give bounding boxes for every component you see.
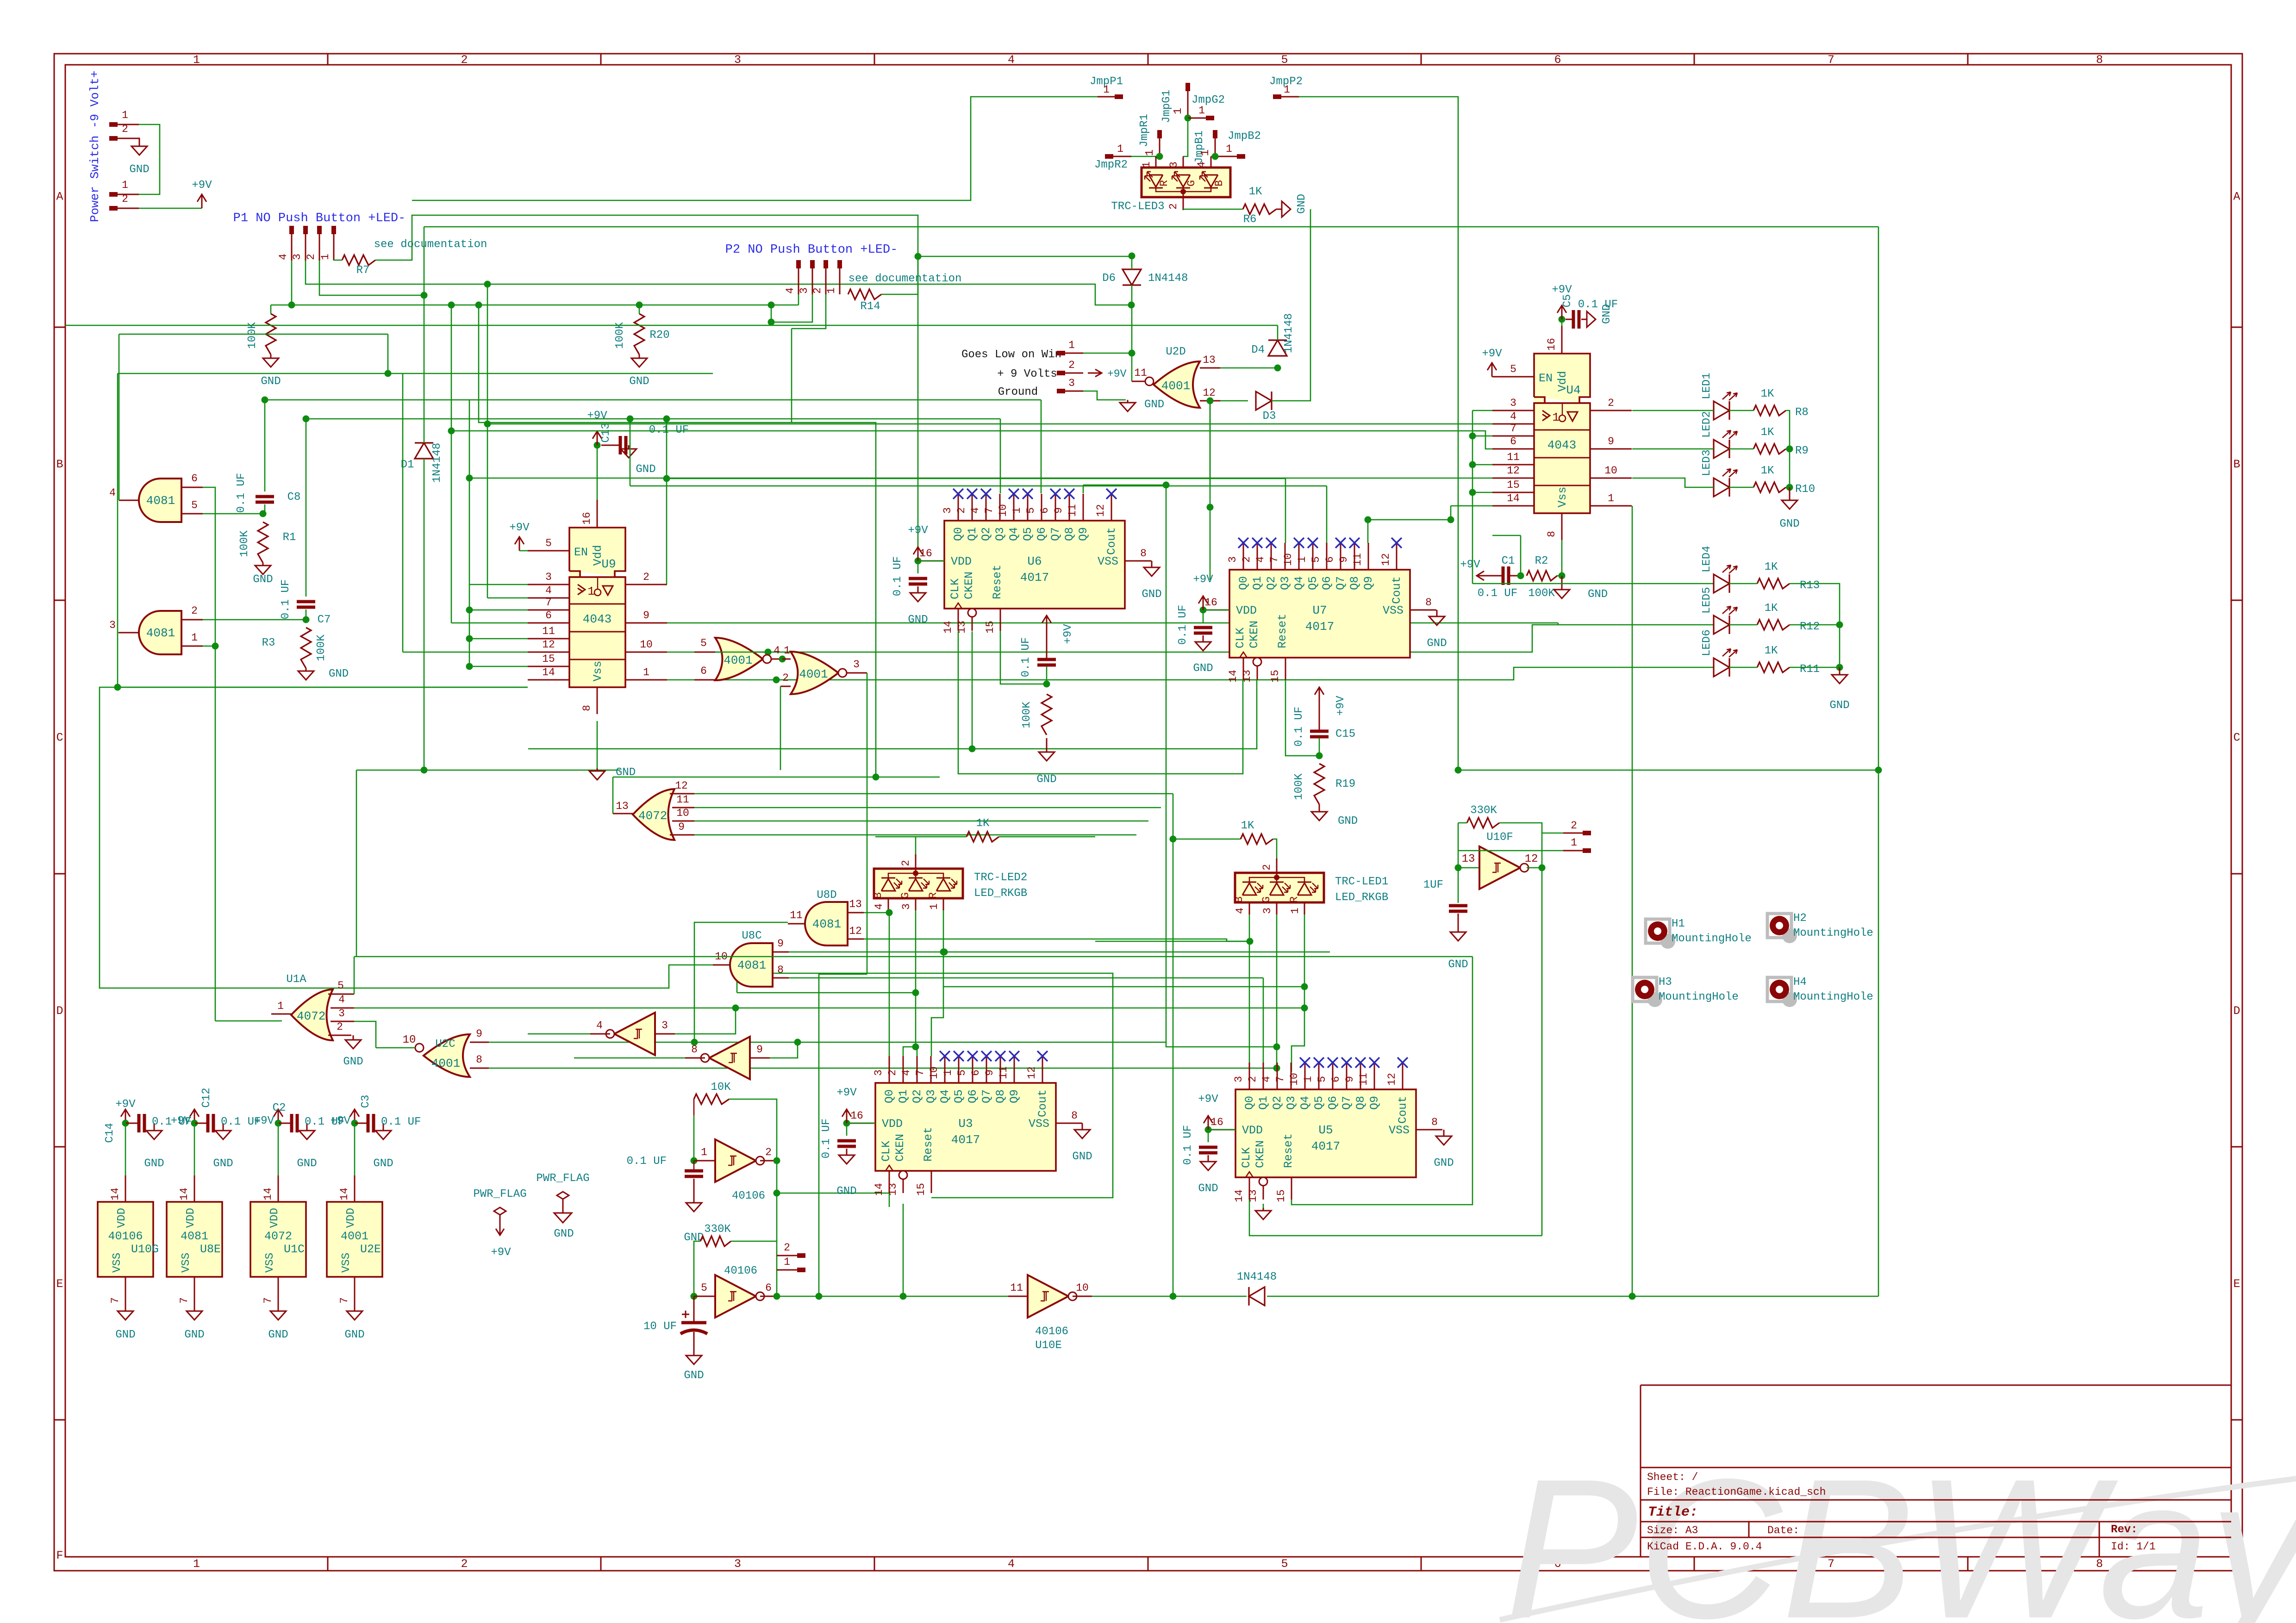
wire U3 Q2 up: [917, 1050, 918, 1056]
svg-text:GND: GND: [554, 1228, 574, 1240]
junction C3: [351, 1120, 358, 1127]
GND label (pwr flag): [554, 1228, 574, 1240]
R10 refdes: [1795, 483, 1815, 496]
svg-text:3: 3: [109, 619, 116, 631]
junction R9 out: [1786, 446, 1793, 453]
GND label (U6 cap): [908, 614, 928, 626]
svg-text:VDD: VDD: [185, 1208, 197, 1228]
ground symbol (R6): [1276, 194, 1308, 217]
U6 no-connect Q7: [1050, 489, 1061, 499]
U7 pin 13 (CKEN) bubble: [1253, 658, 1261, 666]
svg-text:1: 1: [1068, 339, 1075, 351]
power +9V symbol (C1): [1460, 559, 1491, 580]
C1 refdes: [1502, 555, 1515, 567]
svg-text:11: 11: [790, 909, 803, 921]
svg-text:3: 3: [900, 903, 912, 910]
graphic text Goes Low on Win: [961, 348, 1061, 361]
svg-text:Q0: Q0: [1237, 576, 1250, 590]
wire U3 cap: [846, 1123, 848, 1136]
svg-text:+9V: +9V: [171, 1115, 191, 1127]
svg-text:C13: C13: [600, 423, 612, 442]
IC U1C 4072 body: [250, 1202, 306, 1277]
inv-a bubble note: [0, 0, 0, 0]
svg-text:C1: C1: [1502, 555, 1515, 567]
junction JmpG1/G2: [1185, 115, 1192, 122]
U4 EN label: [1539, 372, 1553, 385]
svg-text:Q1: Q1: [897, 1089, 910, 1103]
svg-text:2: 2: [191, 605, 198, 617]
svg-text:11: 11: [1352, 553, 1364, 566]
wire U8A pin6 net: [203, 487, 215, 646]
wire U6 Q6 up: [1041, 400, 1042, 493]
LED LED2: [1714, 430, 1737, 458]
U5 no-connect Cout: [1398, 1057, 1408, 1068]
U7 CLK wedge: [1240, 652, 1247, 658]
U6 Reset label: [991, 565, 1004, 599]
junction U4 pin14 chain: [1447, 516, 1454, 523]
U5 pin 7 (Q3): [1274, 1063, 1291, 1089]
ground symbol (U6 cap): [910, 586, 926, 602]
U8E pin 7 (VSS): [178, 1277, 194, 1310]
svg-text:8: 8: [1431, 1116, 1438, 1128]
wire U1B in11: [694, 807, 1161, 808]
U7 cap value 0.1 UF: [1177, 605, 1189, 645]
svg-text:VSS: VSS: [340, 1253, 353, 1273]
svg-text:4: 4: [1254, 556, 1267, 563]
junction x254 y1485: [114, 684, 121, 691]
U7 pin 15 (Reset): [1269, 658, 1285, 683]
junction net A x1666: [768, 302, 775, 309]
svg-text:Q2: Q2: [1265, 576, 1278, 590]
wire U4 pin3 in: [1472, 410, 1492, 411]
capacitor 0.1UF (osc1): [685, 1171, 703, 1176]
C14 refdes: [104, 1123, 116, 1143]
hierarchical label JmpR1: [1138, 114, 1151, 147]
junction U4 pin12 braid: [466, 475, 473, 482]
junction U9 pin15: [466, 663, 473, 670]
win connector pin 1: [1057, 339, 1083, 355]
svg-text:14: 14: [1233, 1189, 1245, 1202]
svg-text:40106: 40106: [732, 1190, 765, 1202]
svg-text:D3: D3: [1263, 410, 1276, 423]
svg-text:1: 1: [928, 903, 940, 910]
wire D1 upper lead: [424, 227, 425, 443]
wire U9 pin1 bus: [667, 679, 776, 681]
wire y703 trunk: [65, 325, 1278, 326]
svg-text:40106: 40106: [108, 1230, 143, 1243]
svg-text:12: 12: [675, 780, 688, 792]
junction U8D-out x1500: [691, 1039, 698, 1046]
U2D pin 12: [1200, 387, 1220, 401]
U8C pin 10 (output): [713, 951, 731, 965]
svg-text:15: 15: [1269, 670, 1281, 683]
svg-text:1K: 1K: [976, 817, 990, 830]
svg-text:Q4: Q4: [1298, 1096, 1312, 1110]
svg-text:14: 14: [1507, 492, 1520, 504]
ground symbol (U2E): [347, 1310, 362, 1320]
svg-text:LED2: LED2: [1701, 411, 1713, 438]
resistor R3: [301, 628, 311, 668]
svg-text:2: 2: [900, 860, 912, 866]
svg-text:15: 15: [984, 621, 996, 634]
U5 CLK label: [1240, 1147, 1253, 1168]
GND label (U1C): [268, 1329, 288, 1341]
wire U8B pin2 to C7: [203, 619, 306, 621]
power +9V symbol (U4 EN): [1482, 348, 1502, 377]
svg-text:1UF: 1UF: [1423, 879, 1443, 891]
wire U5 cap: [1208, 1130, 1209, 1142]
svg-text:1: 1: [1103, 84, 1110, 96]
svg-text:1: 1: [1552, 410, 1560, 424]
junction TRC1 p4: [1247, 938, 1254, 945]
svg-text:R7: R7: [356, 264, 370, 277]
10K value: [711, 1081, 731, 1094]
svg-text:0.1 UF: 0.1 UF: [820, 1119, 833, 1158]
junction R12 out: [1836, 622, 1843, 628]
svg-text:Q6: Q6: [1326, 1096, 1340, 1110]
junction U5 VDD: [1205, 1126, 1212, 1133]
svg-text:10 UF: 10 UF: [643, 1320, 677, 1333]
wire osc select vertical: [776, 1193, 778, 1296]
GND label (U5 cap): [1198, 1182, 1218, 1195]
U6 no-connect Q4: [1009, 489, 1019, 499]
GND label (U6 VSS): [1142, 588, 1161, 601]
gate U1B 4072: [633, 789, 674, 840]
wire U4 pin14 chain: [1368, 506, 1451, 520]
U5 pin 16 (VDD): [1209, 1116, 1235, 1130]
U5 pin 5 (Q6): [1316, 1063, 1333, 1089]
svg-text:5: 5: [1281, 53, 1288, 67]
wire P2 pin4: [798, 294, 799, 305]
junction inv-a in / U1A in4: [732, 1005, 739, 1012]
svg-text:Sheet: /: Sheet: /: [1647, 1471, 1698, 1483]
junction U6 reset RC: [1043, 681, 1050, 688]
wire U8D out: [694, 922, 788, 1042]
hierarchical label JmpP2: [1269, 75, 1303, 88]
U8B pin 3 (output): [109, 619, 140, 633]
U10F refdes: [1486, 831, 1513, 844]
wire pullup net A: [271, 305, 799, 306]
U5 pin 15 (Reset): [1275, 1177, 1291, 1202]
wire U5 reset loop: [1291, 957, 1472, 1205]
U9 pin 16 (Vdd): [581, 500, 597, 528]
svg-text:15: 15: [915, 1183, 927, 1196]
ground symbol (U4 pin8): [1554, 576, 1570, 598]
svg-text:VDD: VDD: [951, 555, 972, 568]
ground symbol (C5): [1581, 304, 1613, 327]
U7 VDD label: [1236, 604, 1257, 617]
IC U10G 40106 body: [98, 1202, 153, 1277]
junction U6 Q9: [1163, 482, 1170, 489]
frame row label B right: [2233, 458, 2240, 471]
inverter U10F 40106: [1479, 846, 1529, 889]
D4 refdes: [1251, 344, 1265, 356]
svg-text:+9V: +9V: [1062, 624, 1074, 644]
wire U7 cap: [1203, 610, 1204, 622]
U7 Q4 label: [1292, 576, 1306, 590]
GND label (U7 VSS): [1427, 637, 1447, 650]
svg-text:1: 1: [1011, 507, 1023, 514]
svg-text:MountingHole: MountingHole: [1793, 927, 1873, 939]
svg-text:1K: 1K: [1761, 465, 1774, 477]
svg-text:B: B: [872, 892, 884, 899]
resistor R20: [634, 314, 644, 354]
U9 section divider: [569, 631, 625, 633]
svg-text:File: ReactionGame.kicad_sch: File: ReactionGame.kicad_sch: [1647, 1486, 1826, 1498]
svg-text:Cout: Cout: [1390, 576, 1404, 604]
svg-text:1: 1: [1284, 84, 1290, 96]
junction U2A out: [779, 656, 786, 663]
diode D3 1N4148: [1256, 392, 1272, 410]
ground symbol (U6 VSS): [1144, 561, 1160, 576]
svg-text:1: 1: [1226, 143, 1232, 155]
U4 value 4043: [1547, 438, 1576, 452]
U4 pin 4: [1492, 410, 1534, 424]
U1B pin 9: [670, 821, 694, 835]
svg-text:10: 10: [1604, 465, 1617, 477]
GND label (win conn): [1144, 398, 1164, 411]
U3 pin 1 (Q5): [942, 1056, 959, 1083]
svg-text:7: 7: [338, 1297, 350, 1304]
wire 330K left down: [694, 1241, 700, 1296]
U8B pin 1: [181, 632, 203, 646]
resistor R11 1K: [1757, 662, 1790, 672]
svg-text:8: 8: [1546, 531, 1558, 537]
H1 label: [1672, 918, 1685, 930]
GND label (U10G): [115, 1329, 135, 1341]
svg-text:U10F: U10F: [1486, 831, 1513, 844]
wire U1A in5 riser2: [354, 957, 355, 994]
svg-text:10: 10: [997, 504, 1009, 517]
frame row label B left: [56, 458, 63, 471]
wire JmpP1 net: [412, 97, 1098, 200]
U5 pin 1 (Q5): [1302, 1063, 1319, 1089]
U8D pin 11 (output): [788, 909, 806, 924]
U6 pin 13 (CKEN) bubble: [968, 609, 976, 617]
power +9V symbol (U6 VDD): [908, 524, 928, 561]
wire P2 pin4 cont: [771, 305, 772, 322]
svg-text:1N4148: 1N4148: [1283, 313, 1295, 353]
U5 Q8 label: [1354, 1096, 1367, 1110]
frame row label D left: [56, 1004, 63, 1018]
U7 no-connect Q4: [1294, 538, 1304, 548]
R12 value 1K: [1765, 602, 1778, 615]
wire LED3 to R10: [1729, 487, 1753, 488]
svg-text:U4: U4: [1566, 383, 1580, 397]
power +9V symbol (C2): [274, 1109, 283, 1123]
wire U1B in12: [694, 793, 1173, 795]
svg-text:Q3: Q3: [993, 527, 1007, 541]
frame column label 8 top: [2096, 53, 2103, 67]
svg-text:1: 1: [825, 287, 837, 294]
wire U6 Q9 up: [1083, 485, 1084, 493]
svg-text:100K: 100K: [315, 634, 328, 661]
junction R11 out: [1836, 664, 1843, 671]
TRC-LED1 pin 4 (bottom): [1234, 902, 1249, 914]
C13 value 0.1 UF: [649, 424, 689, 436]
svg-text:5: 5: [701, 1282, 707, 1294]
U3 pin 8 (VSS): [1056, 1110, 1082, 1123]
svg-text:R12: R12: [1800, 621, 1820, 633]
svg-text:4: 4: [873, 903, 885, 910]
U3 pin 16 (VDD): [849, 1110, 875, 1123]
junction U9 pin7: [466, 607, 473, 614]
U8A pin 4 (output): [109, 487, 140, 500]
svg-text:3: 3: [734, 53, 741, 67]
P1 connector pin 1: [319, 226, 336, 261]
ground symbol (R1): [255, 563, 271, 574]
U2E pin 7 (VSS): [338, 1277, 355, 1310]
TRC-LED1 LED G: [1260, 882, 1290, 903]
wire U4 pin12 in: [469, 478, 1492, 479]
svg-text:4: 4: [1008, 53, 1015, 67]
svg-text:3: 3: [873, 1070, 885, 1076]
LED6 label: [1701, 629, 1713, 656]
svg-text:1: 1: [1296, 556, 1308, 563]
power flag PWR_FLAG (GND): [554, 1192, 572, 1223]
svg-text:4001: 4001: [341, 1230, 368, 1243]
U8E pin 14 (VDD): [178, 1175, 194, 1202]
TRC-LED1 pin 3 (bottom): [1261, 902, 1277, 914]
wire R7 to +9V rail: [375, 215, 918, 561]
ground symbol (U5 cap): [1200, 1155, 1216, 1170]
svg-text:2: 2: [461, 53, 468, 67]
svg-text:U8D: U8D: [817, 889, 836, 902]
svg-text:1K: 1K: [1241, 820, 1254, 832]
win connector pin 2: [1057, 359, 1083, 375]
junction osc1 out: [774, 1157, 780, 1164]
svg-text:2: 2: [643, 571, 649, 583]
resistor U6 reset 100K: [1042, 694, 1052, 735]
R8 refdes: [1795, 406, 1809, 419]
C5 value 0.1 UF: [1578, 298, 1618, 311]
wire U7 VDD: [1203, 609, 1229, 611]
svg-text:+9V: +9V: [1482, 348, 1502, 360]
svg-text:Q2: Q2: [1271, 1096, 1284, 1110]
svg-text:14: 14: [942, 621, 954, 634]
wire D4 top: [1277, 325, 1279, 340]
LED LED3: [1714, 469, 1737, 497]
wire 1K TRC1 right: [1273, 839, 1277, 858]
wire C1 riser: [1520, 535, 1522, 576]
svg-text:GND: GND: [329, 668, 349, 680]
svg-text:100K: 100K: [614, 322, 626, 349]
svg-text:GND: GND: [1448, 958, 1468, 971]
svg-text:Reset: Reset: [1282, 1133, 1295, 1168]
H2 label: [1793, 912, 1807, 925]
svg-text:H3: H3: [1659, 976, 1672, 989]
R11 refdes: [1800, 663, 1820, 676]
svg-text:12: 12: [542, 639, 555, 651]
svg-text:LED_RKGB: LED_RKGB: [974, 887, 1027, 900]
R6 refdes: [1243, 213, 1257, 226]
capacitor C5: [1566, 310, 1579, 329]
U5 CKEN label: [1254, 1140, 1267, 1168]
osc1 pin 1: [694, 1146, 715, 1161]
svg-text:1K: 1K: [1765, 602, 1778, 615]
U2B pin 2: [780, 672, 791, 686]
U4 pin 5 (EN): [1492, 363, 1534, 377]
wire U4 pin11 in: [1472, 464, 1492, 466]
junction C12: [191, 1120, 198, 1127]
U2D refdes: [1166, 346, 1185, 358]
wire U4 pin8 down: [1561, 540, 1563, 576]
wire y1485 bus: [118, 687, 528, 688]
osc1 pin 2 (output): [760, 1146, 777, 1161]
ground symbol (U7 VSS): [1429, 610, 1445, 625]
svg-text:7: 7: [262, 1297, 274, 1304]
capacitor 10UF plus sign: [682, 1311, 689, 1318]
resistor R7: [342, 255, 375, 265]
U5 CLK wedge: [1246, 1172, 1253, 1177]
frame column label 3 bottom: [734, 1557, 741, 1571]
ground symbol (U3 VSS): [1074, 1123, 1090, 1138]
junction P2 pin4: [768, 319, 775, 326]
wire U7 Q6 left: [630, 485, 1327, 487]
svg-text:1: 1: [191, 632, 198, 644]
junction C1/R2: [1517, 572, 1524, 579]
svg-text:+9V: +9V: [115, 1098, 136, 1111]
U3 Q8 label: [994, 1089, 1007, 1103]
junction C7 riser: [303, 416, 310, 423]
svg-text:GND: GND: [684, 1369, 704, 1382]
U5 cap value 0.1 UF: [1182, 1125, 1194, 1165]
1UF value: [1423, 879, 1443, 891]
svg-text:100K: 100K: [1528, 587, 1555, 600]
IC U4 4043 main box: [1534, 403, 1590, 513]
P1 connector pin 4: [277, 226, 294, 261]
wire U10F in: [1458, 867, 1479, 869]
svg-text:MountingHole: MountingHole: [1672, 933, 1752, 945]
wire osc2 output bus: [778, 1296, 1247, 1297]
svg-text:P1 NO Push Button +LED-: P1 NO Push Button +LED-: [233, 211, 406, 225]
svg-text:EN: EN: [1539, 372, 1553, 385]
wire U2C in8: [489, 1068, 1277, 1069]
GND label (C12): [213, 1157, 233, 1170]
wire osc1 cap: [693, 1161, 695, 1169]
U3 pin 9 (Q8): [984, 1056, 1000, 1083]
U5 pin 3 (Q0): [1233, 1063, 1249, 1089]
wire R13 down: [1790, 584, 1840, 667]
U7 no-connect Cout: [1391, 538, 1402, 548]
svg-text:B: B: [2233, 458, 2240, 471]
svg-text:CLK: CLK: [880, 1141, 893, 1162]
U2E refdes: [360, 1243, 381, 1256]
U7 Cout label: [1390, 576, 1404, 604]
svg-text:JmpB2: JmpB2: [1228, 130, 1261, 143]
hierarchical label JmpB1: [1193, 131, 1206, 164]
U5 no-connect Q8: [1355, 1057, 1366, 1068]
U4 pin 9: [1590, 435, 1632, 449]
inv-b pin 8 (output): [685, 1044, 705, 1058]
U5 pin 13 (CKEN): [1247, 1186, 1263, 1202]
svg-text:R11: R11: [1800, 663, 1820, 676]
junction U2C in8 / U5 Q2: [1273, 1065, 1280, 1072]
svg-text:2: 2: [461, 1557, 468, 1571]
frame row label C right: [2233, 731, 2240, 745]
wire 330K right net: [731, 1241, 777, 1242]
svg-text:12: 12: [1203, 387, 1216, 399]
svg-text:4: 4: [1196, 162, 1208, 168]
wire P1 pin3 right: [306, 261, 1131, 305]
wire U8C in9: [789, 951, 1330, 953]
LED5 label: [1701, 587, 1713, 614]
ground symbol (U8E): [187, 1310, 202, 1320]
svg-text:0.1 UF: 0.1 UF: [1478, 587, 1517, 600]
svg-text:VDD: VDD: [882, 1117, 903, 1131]
svg-text:1: 1: [193, 53, 200, 67]
svg-text:1: 1: [1172, 108, 1185, 114]
